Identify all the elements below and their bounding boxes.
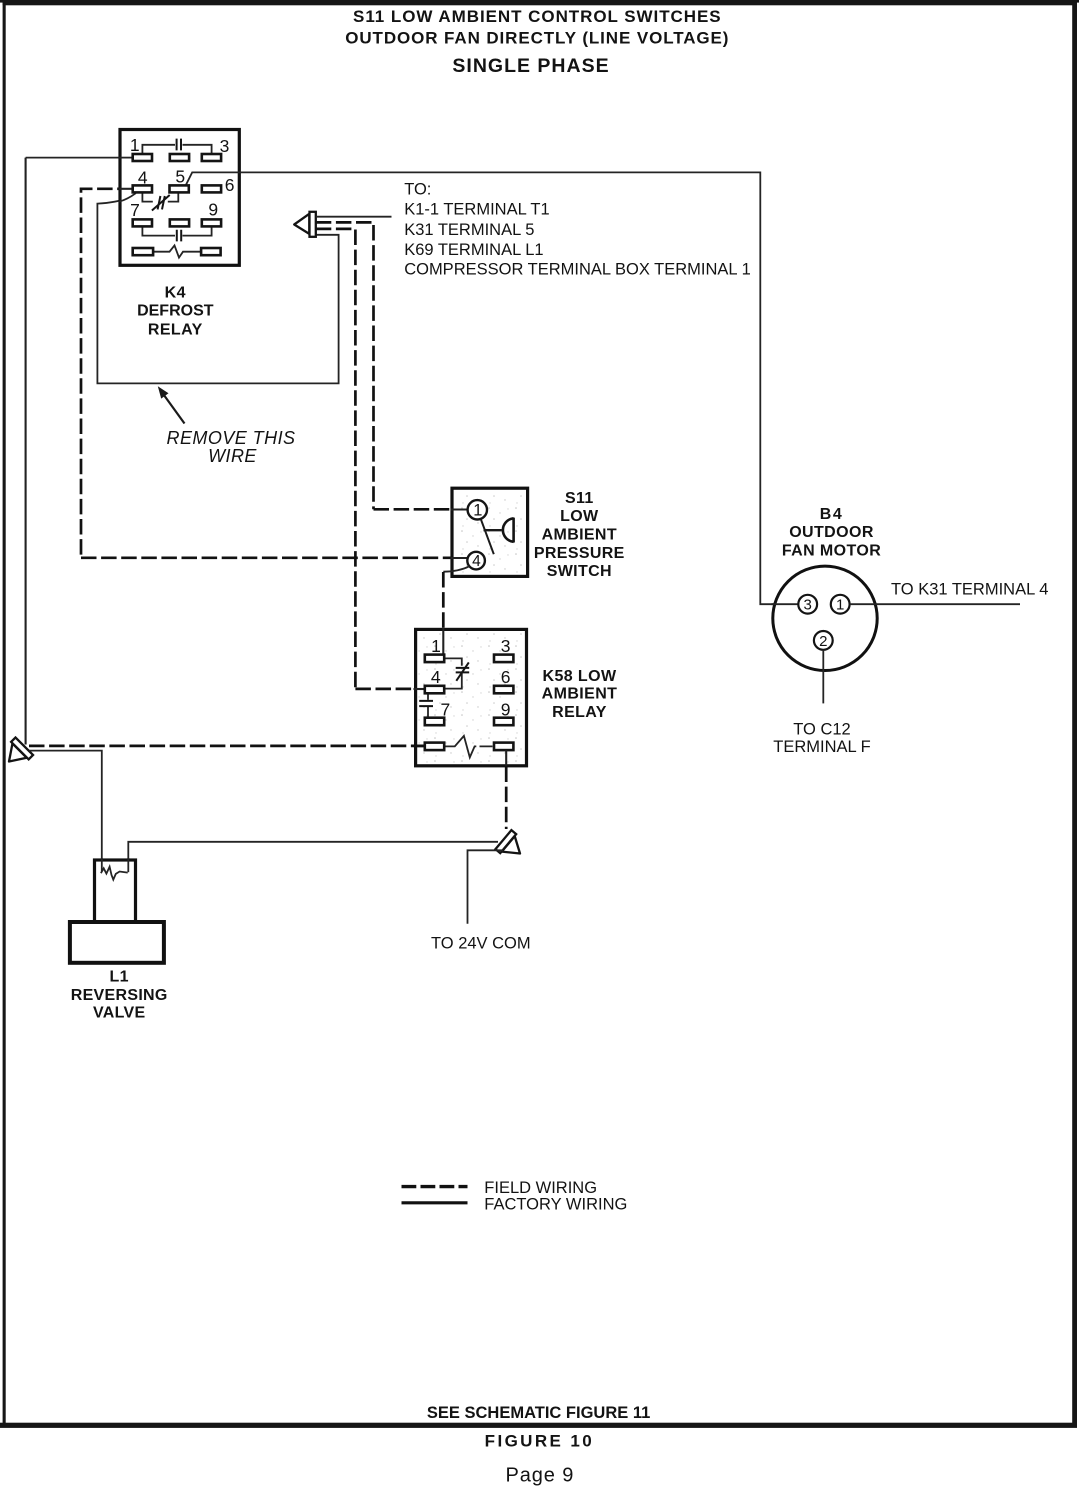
K58 NC contact [456,668,470,673]
svg-text:VALVE: VALVE [93,1005,145,1022]
B4 pin 1 [831,595,850,614]
svg-text:S11: S11 [565,490,594,507]
svg-text:OUTDOOR FAN DIRECTLY (LINE VOL: OUTDOOR FAN DIRECTLY (LINE VOLTAGE) [345,29,729,48]
svg-text:SEE SCHEMATIC FIGURE 11: SEE SCHEMATIC FIGURE 11 [427,1404,650,1422]
L1 valve body [70,922,164,963]
svg-text:3: 3 [220,136,230,156]
svg-text:K4: K4 [165,285,186,302]
K58 label [542,668,618,721]
L1 solenoid box [95,860,136,922]
K4 terminal pin 5 [170,185,189,192]
S11 switch arm [481,519,494,554]
footer bottom border line [0,1423,1077,1428]
svg-text:3: 3 [501,636,511,656]
svg-text:3: 3 [804,597,812,614]
wire: B4 pin2 down to C12 [822,650,824,704]
svg-text:REVERSING: REVERSING [71,987,168,1004]
connector spade (left) [0,737,33,770]
svg-text:AMBIENT: AMBIENT [542,527,617,544]
svg-text:6: 6 [225,175,235,195]
svg-text:REMOVE THIS: REMOVE THIS [167,428,296,448]
K4 terminal pin 4 [133,185,152,192]
svg-text:TO K31 TERMINAL 4: TO K31 TERMINAL 4 [891,581,1048,599]
svg-text:AMBIENT: AMBIENT [542,685,618,702]
K4 row1 wire + NO contact (pins 1-3) [142,145,211,155]
svg-text:DEFROST: DEFROST [137,302,214,319]
L1 break squiggle [101,867,128,880]
svg-text:TO C12: TO C12 [793,720,850,738]
svg-text:9: 9 [501,699,511,719]
svg-text:PRESSURE: PRESSURE [534,545,625,562]
svg-text:7: 7 [441,699,451,719]
B4 outdoor fan motor circle [773,566,877,670]
svg-text:S11 LOW AMBIENT CONTROL SWITCH: S11 LOW AMBIENT CONTROL SWITCHES [353,7,722,26]
K4 terminal pin 8 (unlabeled) [170,219,189,226]
wire: stub inside B4 to pin3 [772,603,799,605]
wire: remove-wire curve inside box [119,193,136,202]
svg-text:7: 7 [130,200,140,220]
svg-text:9: 9 [208,199,218,219]
wire: stub to S11 pin1 [451,508,469,510]
svg-text:TO 24V COM: TO 24V COM [431,935,531,953]
K58 coil [444,736,492,758]
K58 terminal pin 4 [425,686,444,694]
svg-text:RELAY: RELAY [148,322,203,339]
K4 coil terminal left [133,248,153,255]
wire: stub from box top to K58 pin1 [442,628,444,655]
L1 solenoid wire corner to 24V connector [128,842,498,861]
K4 terminal pin 6 [202,185,221,192]
K4 row2 wire + NC contact (pins 4-5) [142,193,178,202]
K58 coil terminal right [494,743,513,751]
svg-text:FIGURE 10: FIGURE 10 [485,1432,594,1451]
S11 terminal 4 [467,552,485,570]
wire: K4 pin1 stub to left box edge [119,157,133,159]
B4 label [782,506,881,559]
svg-text:FACTORY WIRING: FACTORY WIRING [484,1196,627,1214]
K4 terminal pin 3 [202,154,221,161]
svg-text:WIRE: WIRE [208,446,257,466]
wire (field, dashed): connector down to S11 pin1 [316,222,468,509]
K58 relay box [416,629,527,765]
legend factory wiring sample [402,1201,468,1204]
wire: L1 lead stub inside solenoid (left) [101,858,103,872]
svg-text:1: 1 [130,135,140,155]
svg-text:FAN MOTOR: FAN MOTOR [782,542,881,559]
K4 terminal pin 9 [202,219,221,226]
svg-text:1: 1 [431,636,441,656]
wire: REMOVE-THIS-WIRE loop (connector to K4 pin4) [97,193,338,383]
K58 NO contact (pin4-pin7) [427,694,429,718]
svg-text:RELAY: RELAY [552,704,607,721]
S11 diaphragm actuator [484,529,502,531]
wire: K58 coil right pin down [505,750,507,766]
S11 pressure switch box [452,488,528,576]
svg-text:1: 1 [473,502,482,520]
wire: stub into K58 coil left pin [414,745,426,747]
S11 label [534,490,625,580]
svg-text:SINGLE PHASE: SINGLE PHASE [452,55,609,77]
wire (field, dashed): K4 pin4 left, down, right to S11 pin4 [81,189,468,558]
svg-text:L1: L1 [110,968,129,985]
svg-text:K31 TERMINAL 5: K31 TERMINAL 5 [404,221,534,239]
wire (field, dashed): left connector to K58 coil left pin [29,745,425,748]
B4 pin 2 [814,631,833,650]
svg-text:K1-1 TERMINAL T1: K1-1 TERMINAL T1 [404,201,550,219]
K4 coil terminal right [201,248,221,255]
wire: S11 pin4 exit curve [443,566,469,571]
wire: 24V connector down lead [468,850,504,924]
arrow pointing to removed wire [158,386,185,423]
K4 row3 wire + NO contact (pins 7-9) [142,227,211,236]
K4 terminal pin 7 [133,219,152,226]
K58 terminal pin 9 [494,718,513,726]
wire: K4 pin4 dashed stub inside box [119,188,133,190]
wire: L1 lead stub inside solenoid (right) [127,858,129,872]
B4 pin 3 [798,595,817,614]
K4 terminal pin 2 (unlabeled) [170,154,189,161]
wire: stub into K58 pin4 [414,688,426,690]
K4 coil [153,245,201,257]
svg-text:K58 LOW: K58 LOW [543,668,617,685]
wire: stub to S11 pin4 [451,557,469,559]
wire: left connector to L1 valve [29,751,102,871]
svg-text:OUTDOOR: OUTDOOR [789,524,874,541]
legend field wiring sample [402,1185,468,1188]
wire (field, dashed): K58 down to 24V connector [505,767,508,830]
svg-text:6: 6 [501,667,511,687]
wire: B4 pin1 to K31 terminal 4 [850,603,1020,605]
svg-text:1: 1 [836,597,844,614]
K58 pin1 to NC contact wire [444,658,462,688]
svg-text:K69 TERMINAL L1: K69 TERMINAL L1 [404,241,543,259]
svg-text:TERMINAL F: TERMINAL F [773,738,870,756]
wire (field, dashed): S11 pin4 down to K58 pin1 [442,572,445,630]
svg-text:5: 5 [175,167,185,187]
K4 terminal pin 1 [133,154,152,161]
svg-text:Page 9: Page 9 [506,1464,575,1486]
svg-text:B4: B4 [820,506,843,523]
svg-text:SWITCH: SWITCH [547,563,612,580]
wire: K4 pin5 diagonal to right box edge [186,172,241,185]
wire: K4 pin5 diagonal, right to x760, down to B4 pin3 [186,172,798,604]
svg-text:LOW: LOW [560,508,599,525]
svg-text:2: 2 [819,633,827,650]
wire: connector to K1-1 list (factory) [316,216,392,218]
svg-text:TO:: TO: [404,180,431,198]
connector spade (top) [294,212,316,237]
svg-text:4: 4 [138,167,148,187]
svg-text:4: 4 [472,553,481,570]
wire (field, dashed): connector down to K58 pin4 [316,229,425,689]
L1 label [71,968,168,1021]
K4 relay box [120,130,239,266]
S11 terminal 1 [468,500,487,519]
K58 terminal pin 1 [425,655,444,663]
wire: K4 pin1 left + down to left connector (factory) [26,157,133,159]
K58 terminal pin 6 [494,686,513,694]
svg-text:COMPRESSOR TERMINAL BOX TERMIN: COMPRESSOR TERMINAL BOX TERMINAL 1 [404,260,751,278]
svg-text:4: 4 [431,667,441,687]
connector spade (24V COM) [495,830,527,863]
K58 terminal pin 3 [494,655,513,663]
svg-text:FIELD WIRING: FIELD WIRING [484,1179,597,1197]
K58 terminal pin 7 [425,718,444,726]
K58 coil terminal left [425,743,444,751]
